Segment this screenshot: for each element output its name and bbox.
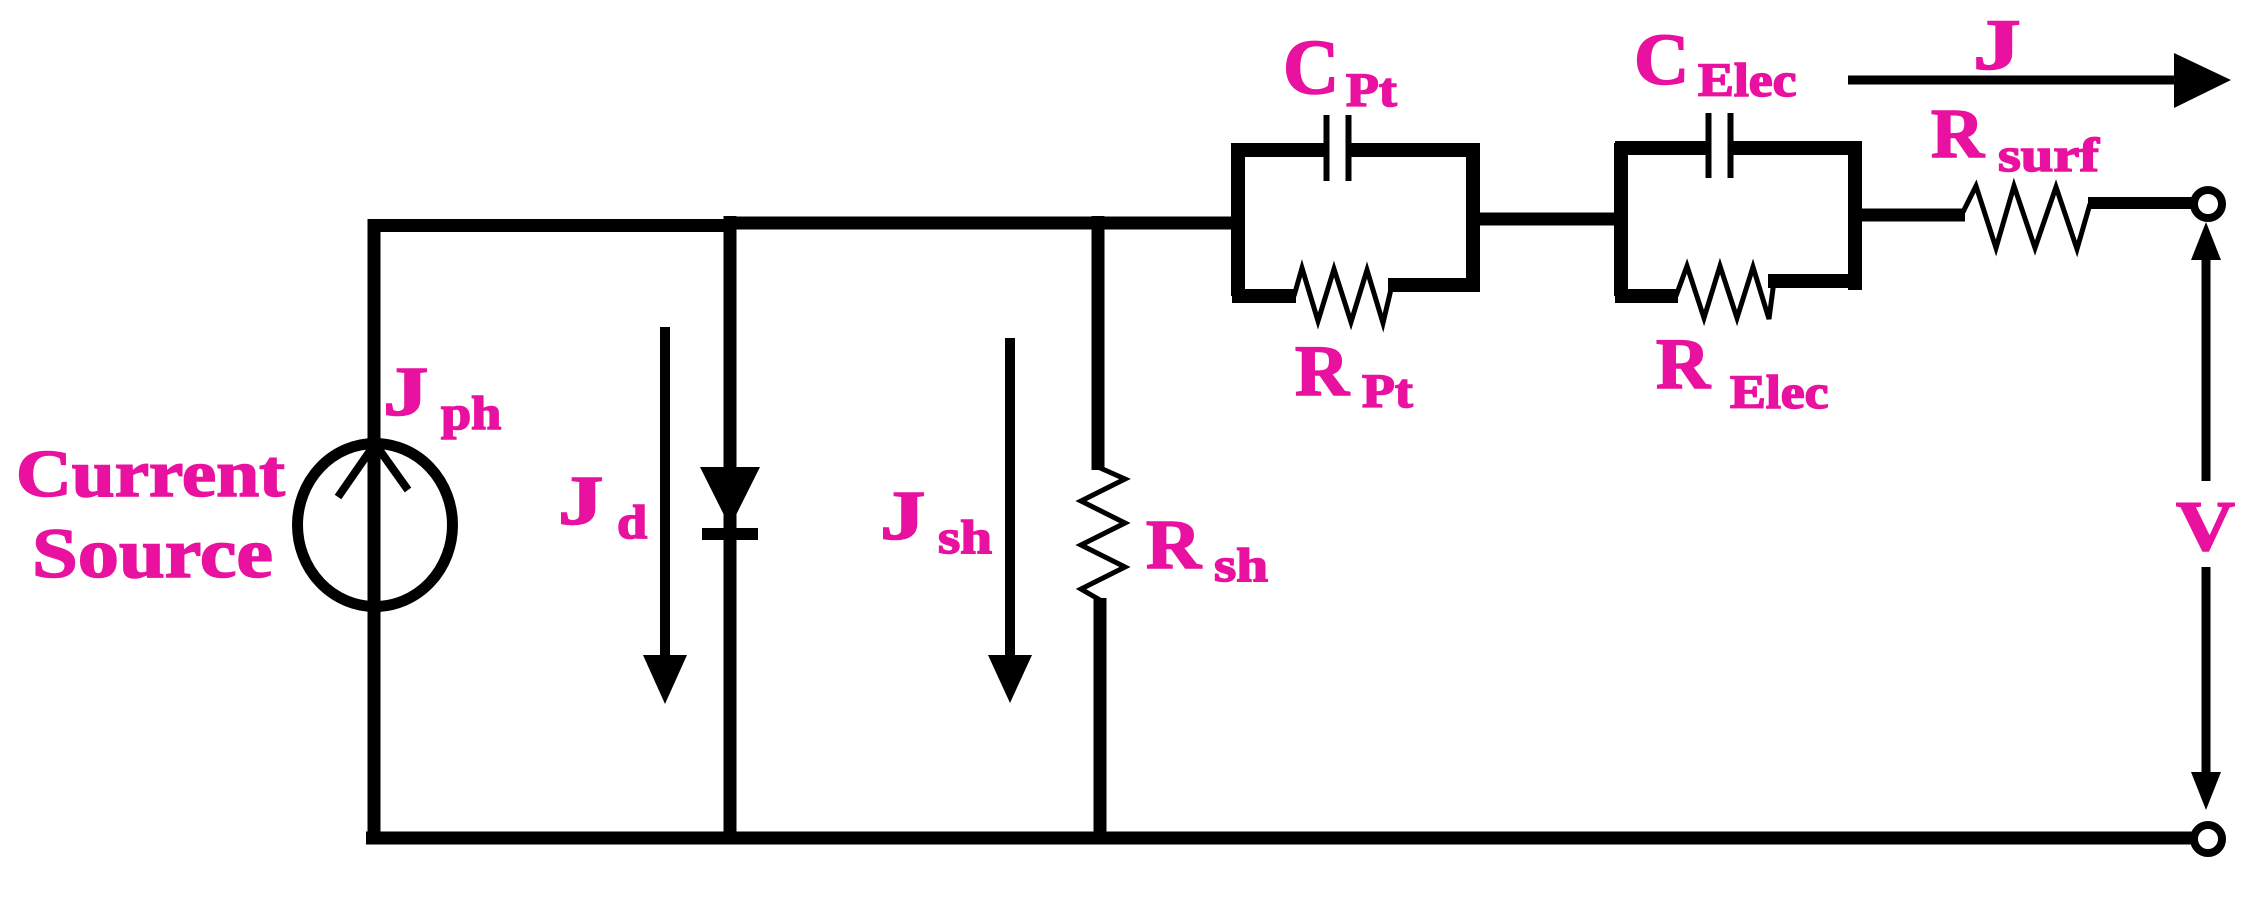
svg-text:R: R <box>1656 324 1711 403</box>
svg-text:sh: sh <box>1214 539 1268 592</box>
svg-text:sh: sh <box>938 511 992 564</box>
svg-text:J: J <box>558 462 604 540</box>
svg-text:J: J <box>880 477 926 555</box>
svg-text:J: J <box>383 353 429 431</box>
svg-text:Source: Source <box>32 513 273 592</box>
svg-text:Pt: Pt <box>1346 65 1397 118</box>
svg-text:surf: surf <box>1998 128 2100 182</box>
svg-text:C: C <box>1283 23 1339 110</box>
svg-text:J: J <box>1973 6 2021 85</box>
svg-text:Elec: Elec <box>1698 55 1797 108</box>
svg-text:R: R <box>1931 95 1985 173</box>
svg-text:R: R <box>1146 506 1202 583</box>
svg-text:Elec: Elec <box>1730 367 1829 420</box>
svg-text:C: C <box>1634 20 1689 101</box>
svg-text:d: d <box>617 496 647 549</box>
svg-text:V: V <box>2176 487 2235 566</box>
svg-text:Current: Current <box>16 437 285 511</box>
svg-text:R: R <box>1295 331 1350 410</box>
svg-text:Pt: Pt <box>1362 366 1413 419</box>
svg-text:ph: ph <box>441 387 501 440</box>
